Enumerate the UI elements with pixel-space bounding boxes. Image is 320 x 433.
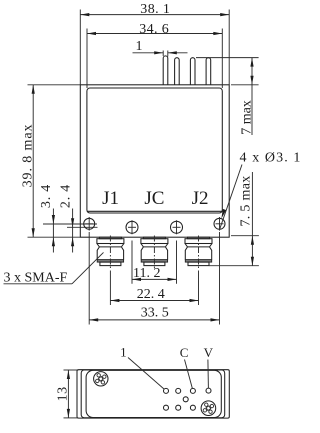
dimension 11.2 (mid hole spacing)	[132, 241, 177, 284]
terminal pin middle	[183, 397, 188, 402]
svg-text:33. 5: 33. 5	[141, 306, 169, 321]
dimension 34.6 (cover width)	[87, 22, 222, 88]
svg-text:7 max: 7 max	[240, 100, 255, 135]
svg-text:39. 8 max: 39. 8 max	[21, 124, 36, 188]
top view: outer base outline	[77, 370, 229, 418]
svg-text:3. 4: 3. 4	[39, 184, 54, 208]
terminal pin row 2	[164, 405, 169, 410]
pin 4	[206, 58, 211, 85]
dimension 7.5 max (connector protrusion)	[209, 172, 259, 266]
svg-text:V: V	[204, 345, 214, 360]
front view: cover plate (rounded lid)	[87, 88, 222, 213]
svg-text:J1: J1	[102, 188, 119, 209]
mounting hole 4 (bottom-right corner)	[214, 217, 225, 231]
svg-text:7. 5 max: 7. 5 max	[239, 175, 254, 226]
svg-text:1: 1	[136, 39, 143, 54]
dimension 1 (pin width)	[133, 39, 188, 57]
mounting hole 2 (mid-left)	[126, 220, 138, 234]
mounting hole 1 (bottom-left corner)	[84, 217, 95, 231]
svg-text:22. 4: 22. 4	[137, 287, 165, 302]
pin 2	[175, 58, 180, 85]
svg-text:34. 6: 34. 6	[139, 22, 169, 37]
svg-text:11. 2: 11. 2	[133, 266, 160, 281]
screw 1 (top-left)	[94, 372, 108, 386]
svg-text:13: 13	[55, 386, 70, 401]
svg-text:C: C	[180, 345, 189, 360]
dimension 38.1 (overall width)	[80, 2, 229, 85]
dimension 33.5 (corner hole spacing)	[89, 232, 219, 325]
svg-text:2. 4: 2. 4	[59, 184, 74, 208]
svg-text:4 x Ø3. 1: 4 x Ø3. 1	[240, 151, 302, 166]
dimension 3.4 (corner hole height)	[39, 184, 55, 253]
label 3 x SMA-F with leader	[4, 252, 104, 285]
dimension 22.4 (J1-J2 spacing)	[110, 271, 198, 306]
dimension 7 max (pin height)	[196, 58, 259, 135]
hole centerline ref A (corner holes)	[43, 223, 97, 225]
dimension 39.8 max (body height)	[21, 85, 81, 237]
hole centerline ref B (mid holes)	[67, 226, 98, 228]
SMA connector JC	[141, 236, 168, 270]
top view: middle outline	[81, 370, 225, 418]
SMA connector J1	[97, 236, 124, 270]
svg-text:38. 1: 38. 1	[140, 2, 170, 17]
pin 3	[190, 58, 195, 85]
screw 2 (bottom-right)	[201, 401, 216, 416]
svg-text:3 x SMA-F: 3 x SMA-F	[4, 271, 68, 286]
dimension 2.4 (mid hole height)	[59, 184, 75, 253]
dimension 13 (top view depth)	[55, 370, 78, 418]
svg-text:JC: JC	[144, 188, 164, 209]
front view: base body outline	[80, 85, 229, 237]
top view: cover outline	[86, 370, 221, 417]
pin 1	[163, 56, 168, 85]
terminal pin row 1	[164, 388, 169, 393]
svg-text:J2: J2	[192, 188, 209, 209]
SMA connector J2	[185, 236, 212, 270]
cover bottom inner edge line	[87, 210, 222, 212]
label 4 x dia 3.1 with leader	[220, 151, 302, 229]
mounting hole 3 (mid-right)	[171, 220, 183, 234]
svg-text:1: 1	[120, 345, 127, 360]
